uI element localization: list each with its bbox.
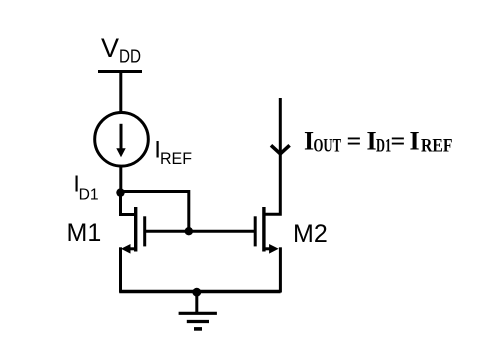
IREF label [154,137,192,169]
VDD supply bar [98,70,142,73]
svg-text:I: I [410,127,420,156]
M2 gate line [254,216,257,246]
ground stem wire [195,292,198,313]
svg-text:D1: D1 [376,136,391,157]
M1 channel line [134,207,137,252]
M1 source leg [119,247,122,292]
VDD label [101,33,141,67]
ground symbol [179,313,217,329]
M2 source leg [279,247,282,292]
svg-text:DD: DD [119,47,141,67]
IOUT = ID1 = IREF formula label [304,127,453,157]
gate junction dot [185,227,193,235]
node ID1 junction dot [116,188,124,196]
bottom rail wire [119,290,280,293]
transistor M2 [255,98,280,293]
ground junction dot [192,288,201,297]
current source arrow [116,124,125,158]
wire diode connection node to gate [121,192,189,232]
svg-text:D1: D1 [79,186,99,203]
ID1 label [73,171,98,204]
output current arrow [271,145,290,154]
svg-text:REF: REF [160,149,192,168]
current source IREF circle [95,113,149,167]
svg-text:=: = [347,127,362,156]
M1 drain wire [121,193,136,215]
svg-text:REF: REF [421,136,453,157]
M2 channel line [262,207,265,252]
svg-text:M1: M1 [67,219,102,247]
wire current source to node ID1 [119,166,122,193]
svg-text:OUT: OUT [314,136,342,157]
svg-text:M2: M2 [293,220,328,248]
svg-text:=: = [391,127,406,156]
wire VDD bar to current source [119,72,122,115]
wire gate rail M1 to M2 [146,230,257,233]
M1 source wire with arrow [128,247,136,250]
M2 drain wire [264,98,280,214]
M2 source wire with arrow [264,247,271,250]
transistor M1 [121,193,145,293]
svg-text:V: V [101,33,119,63]
M1 gate line [143,216,146,246]
